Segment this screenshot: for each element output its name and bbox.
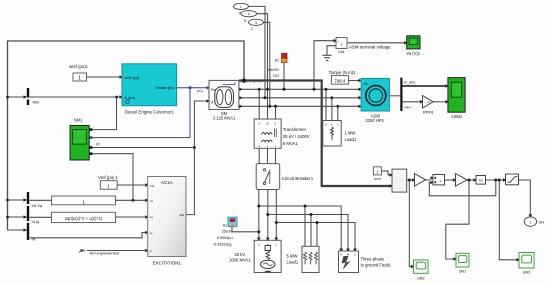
svg-text:2400 V 60 Hz: 2400 V 60 Hz [240, 80, 262, 84]
svg-text:1: 1 [78, 75, 81, 81]
svg-text:-0.4332deg.: -0.4332deg. [213, 242, 233, 246]
svg-text:1: 1 [240, 5, 242, 9]
svg-text:Transformer: Transformer [283, 127, 307, 132]
svg-text:sqrt(u(1)^2 + u(2)^2): sqrt(u(1)^2 + u(2)^2) [65, 216, 103, 221]
svg-text:vq: vq [150, 215, 153, 219]
svg-text:Vref (pu) 1: Vref (pu) 1 [98, 175, 118, 180]
svg-text:5 MW: 5 MW [287, 254, 298, 259]
svg-text:3: 3 [255, 21, 257, 25]
svg-text:C: C [275, 121, 277, 125]
svg-text:Not implemented: Not implemented [90, 250, 119, 255]
svg-text:1: 1 [529, 220, 531, 224]
svg-text:Vd Vq: Vd Vq [32, 203, 43, 208]
svg-text:3.125 MVA1: 3.125 MVA1 [213, 115, 236, 120]
svg-text:Efd: Efd [180, 213, 185, 217]
svg-text:ASM1: ASM1 [451, 114, 463, 119]
svg-text:25 kV / 2400V: 25 kV / 2400V [283, 134, 310, 139]
svg-text:Three-phase: Three-phase [361, 256, 385, 261]
svg-text:Id Iq: Id Iq [32, 219, 40, 224]
svg-text:2.8e3V: 2.8e3V [267, 68, 279, 72]
svg-text:C: C [354, 252, 356, 256]
svg-text:Va (V)1: Va (V)1 [406, 51, 421, 56]
svg-text:B: B [244, 19, 246, 23]
svg-text:25 kV: 25 kV [234, 252, 245, 257]
svg-text:B: B [267, 121, 269, 125]
svg-text:1/z: 1/z [479, 179, 484, 183]
svg-text:throttle (pu): throttle (pu) [156, 86, 175, 90]
svg-text:vf: vf [211, 101, 214, 105]
svg-text:B2: B2 [275, 58, 279, 62]
svg-text:UN3: UN3 [523, 270, 531, 274]
svg-text:<w>: <w> [404, 105, 411, 109]
svg-text:Pm: Pm [197, 89, 203, 93]
svg-text:UN2: UN2 [417, 276, 425, 280]
svg-text:25e3V: 25e3V [222, 230, 233, 234]
svg-text:Load1: Load1 [287, 259, 299, 264]
svg-text:1pu: 1pu [273, 74, 279, 78]
svg-text:IN: IN [32, 236, 36, 241]
svg-text:SM1: SM1 [74, 118, 83, 123]
svg-text:Wm: Wm [33, 100, 40, 105]
svg-text:+: + [337, 39, 339, 43]
svg-text:2250 HP1: 2250 HP1 [365, 118, 384, 123]
svg-text:EXCITATION1: EXCITATION1 [153, 260, 182, 265]
svg-text:≤: ≤ [440, 179, 442, 183]
svg-text:Vs1: Vs1 [338, 49, 345, 54]
svg-text:1: 1 [82, 199, 85, 204]
svg-text:B: B [347, 252, 349, 256]
svg-text:vd: vd [150, 199, 153, 203]
svg-text:AC1A: AC1A [161, 180, 173, 185]
svg-text:A: A [258, 121, 260, 125]
svg-text:wref (pu)1: wref (pu)1 [69, 64, 89, 69]
svg-text:-K-: -K- [427, 100, 431, 104]
svg-text:uref: uref [374, 177, 381, 181]
svg-text:ASM terminal voltage: ASM terminal voltage [349, 45, 391, 50]
svg-text:1: 1 [107, 184, 110, 189]
svg-text:v: v [341, 41, 343, 46]
svg-text:UN: UN [539, 220, 545, 224]
svg-text:wref (pu): wref (pu) [125, 76, 140, 80]
svg-text:6 MVA1: 6 MVA1 [283, 141, 299, 146]
svg-text:798.4: 798.4 [334, 78, 346, 83]
svg-text:Circuit Breaker1: Circuit Breaker1 [282, 176, 314, 181]
svg-text:Torque (N.m)1: Torque (N.m)1 [329, 70, 356, 75]
svg-text:1 MW: 1 MW [345, 131, 356, 136]
svg-text:Is_abc: Is_abc [404, 79, 416, 84]
svg-text:2: 2 [248, 12, 250, 16]
svg-text:vref: vref [150, 184, 155, 188]
svg-text:to ground Fault1: to ground Fault1 [361, 263, 392, 268]
svg-text:1000 MVA1: 1000 MVA1 [229, 258, 251, 263]
svg-text:RPM1: RPM1 [423, 110, 434, 115]
svg-text:UN1: UN1 [459, 270, 467, 274]
svg-text:0.9994pu: 0.9994pu [217, 236, 232, 240]
svg-text:B1: B1 [223, 223, 227, 227]
svg-text:A: A [340, 252, 342, 256]
svg-text:Tm: Tm [363, 82, 368, 86]
svg-text:Load1: Load1 [345, 137, 357, 142]
svg-text:w (pu): w (pu) [125, 96, 135, 100]
svg-text:Diesel Engine Governor1: Diesel Engine Governor1 [125, 110, 175, 115]
